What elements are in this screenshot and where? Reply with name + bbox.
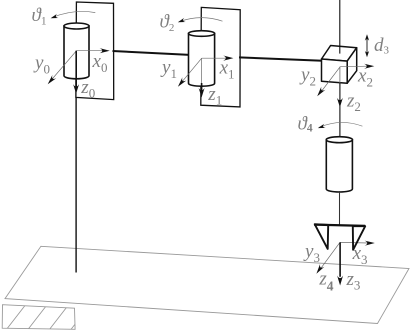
d3 displacement double arrow [366,38,368,55]
joint 2 panel [201,7,240,107]
frame 1 z1 axis [201,58,203,84]
gripper left finger [315,224,329,249]
joint 1 cylinder [64,23,89,79]
frame 3 z3 axis [339,242,341,276]
gripper right finger [353,226,365,250]
joint 2 cylinder [189,31,215,87]
link 2 arm [239,57,323,60]
frame 0 z0 axis [75,51,77,87]
ground plane [5,246,409,323]
column link 0 (wire) [75,77,77,273]
theta1 rotation arc [53,11,96,17]
frame 2 z2 axis [339,67,341,99]
frame 0 x0 axis [77,50,104,52]
prismatic joint axis line upper [339,0,341,54]
joint 4 cylinder [326,137,352,192]
frame 1 y1 axis [182,58,202,82]
frame 1 x1 axis [202,57,227,59]
theta4 rotation arc [319,122,362,127]
link 1 arm [113,51,190,55]
frame 0 y0 axis [53,51,77,79]
hatched base block [2,305,111,330]
link 3 axis line to wrist [339,83,341,139]
prismatic joint 3 cube [322,46,357,84]
wrist stem [339,191,341,225]
frame 2 x2 axis [340,65,367,68]
theta2 rotation arc [180,18,223,22]
gripper top bar [314,225,365,226]
frame 3 x3 axis [340,241,368,244]
frame 3 y3 axis [320,242,340,269]
joint 1 panel [76,2,114,100]
frame 2 y2 axis [321,67,340,92]
